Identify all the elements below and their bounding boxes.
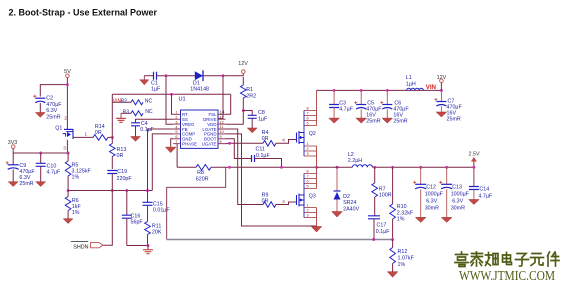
ground C12 — [415, 217, 426, 222]
junction 12V right — [440, 89, 443, 92]
junction 5V/C2 — [66, 83, 69, 86]
resistor R1 — [241, 77, 257, 111]
junction bottom/gnd — [147, 244, 150, 247]
svg-text:5: 5 — [307, 122, 309, 126]
capacitor C9 — [6, 153, 36, 187]
junction C10 tap — [39, 152, 42, 155]
capacitor C10 — [36, 153, 61, 182]
capacitor C8 — [243, 110, 268, 128]
svg-text:1%: 1% — [72, 174, 80, 180]
svg-text:4.7µF: 4.7µF — [47, 169, 62, 175]
svg-text:C4: C4 — [141, 121, 148, 127]
svg-text:C14: C14 — [479, 186, 489, 192]
svg-text:0.01µF: 0.01µF — [153, 208, 170, 214]
wire Q1 gate to R14 — [73, 132, 93, 138]
junction C17 bottom — [372, 238, 375, 241]
wire sense loop — [167, 167, 226, 239]
svg-text:WWW.JTMIC.COM: WWW.JTMIC.COM — [459, 268, 555, 283]
svg-text:4.7µF: 4.7µF — [478, 193, 493, 199]
svg-text:470µF: 470µF — [46, 102, 62, 108]
resistor R8 — [196, 165, 211, 183]
capacitor C19 — [107, 169, 132, 190]
ground Q3 — [311, 227, 322, 233]
junction D2 — [336, 166, 339, 169]
svg-text:4: 4 — [282, 138, 285, 143]
ground U1 GND pin — [165, 147, 176, 153]
wire R14 to node — [108, 136, 112, 138]
svg-text:R7: R7 — [379, 186, 386, 192]
transistor Q2 — [297, 107, 317, 157]
transistor Q1 — [55, 116, 73, 151]
wire C11 to phase — [255, 159, 282, 168]
svg-text:SR24: SR24 — [343, 200, 356, 206]
diode D1 — [190, 70, 209, 92]
svg-text:25mR: 25mR — [447, 117, 461, 123]
ground C9 — [8, 182, 18, 187]
svg-text:220pF: 220pF — [117, 176, 133, 182]
svg-text:2: 2 — [307, 147, 309, 151]
svg-text:C11: C11 — [256, 146, 265, 152]
capacitor C5 — [354, 90, 382, 124]
svg-text:25mR: 25mR — [366, 119, 380, 125]
svg-text:25mR: 25mR — [46, 114, 60, 120]
svg-text:R1: R1 — [246, 87, 253, 93]
resistor R7 — [372, 167, 392, 216]
wire R13 top — [111, 137, 113, 143]
junction R10 — [391, 166, 394, 169]
wire RT net vertical — [111, 94, 113, 137]
wire RT pin drop — [172, 94, 174, 114]
svg-text:R8: R8 — [197, 170, 204, 176]
junction rail C5 — [360, 89, 363, 92]
svg-text:6: 6 — [307, 117, 309, 121]
resistor R2 — [112, 98, 152, 105]
resistor R6 — [65, 191, 81, 219]
junction drive tap — [222, 74, 225, 77]
ground C2 — [35, 113, 45, 118]
svg-text:14: 14 — [220, 110, 226, 115]
svg-text:12V: 12V — [238, 61, 248, 67]
junction FB/C16 — [125, 189, 128, 192]
junction C13 — [445, 166, 448, 169]
svg-text:3: 3 — [307, 152, 309, 156]
wire PHASE drop — [176, 144, 178, 168]
ground C6 — [382, 118, 393, 123]
ground C3 — [329, 118, 340, 123]
ground C5 — [356, 118, 367, 123]
svg-text:4: 4 — [175, 125, 177, 129]
svg-text:1µF: 1µF — [151, 87, 161, 93]
svg-text:100R: 100R — [379, 193, 392, 199]
resistor R13 — [110, 144, 127, 170]
svg-text:0R: 0R — [262, 198, 269, 204]
svg-text:6.3V: 6.3V — [46, 108, 57, 114]
resistor R5 — [65, 153, 91, 191]
svg-text:12: 12 — [220, 120, 224, 124]
capacitor C15 — [143, 191, 171, 222]
svg-text:1N4148: 1N4148 — [190, 86, 209, 92]
svg-text:C17: C17 — [377, 223, 387, 229]
svg-text:3V3: 3V3 — [8, 140, 18, 146]
capacitor C1 — [144, 72, 161, 93]
diode D2 — [334, 191, 360, 213]
capacitor C3 — [329, 90, 354, 118]
svg-text:1%: 1% — [397, 217, 405, 223]
svg-text:3: 3 — [307, 214, 309, 218]
capacitor C14 — [469, 167, 493, 199]
junction UGATE/sense — [228, 142, 231, 145]
wire VREG drop — [166, 76, 173, 125]
svg-text:8: 8 — [307, 170, 309, 174]
wire C1 to D1 — [157, 75, 197, 77]
wire output rail right — [372, 166, 474, 168]
wire COMP pin drop — [152, 134, 173, 191]
ground C4 — [131, 137, 141, 142]
svg-text:6: 6 — [307, 180, 309, 184]
wire BOOT drop — [226, 139, 252, 159]
power port 3V3 — [8, 140, 18, 148]
svg-text:2. Boot-Strap - Use External P: 2. Boot-Strap - Use External Power — [9, 8, 158, 18]
svg-text:4.7µF: 4.7µF — [339, 107, 354, 113]
op-amp U1 controller IC — [173, 97, 225, 149]
svg-text:2.2µH: 2.2µH — [348, 158, 363, 164]
svg-text:30mR: 30mR — [425, 205, 439, 211]
wire R4 to Q2 gate — [276, 138, 297, 144]
junction phase/R8 sense — [228, 166, 231, 169]
junction rail C6 — [386, 89, 389, 92]
svg-text:1: 1 — [307, 204, 309, 208]
svg-text:R3: R3 — [123, 109, 130, 115]
svg-text:D2: D2 — [343, 194, 350, 200]
wire D1 to 12V — [204, 74, 244, 76]
svg-text:C8: C8 — [258, 110, 265, 116]
junction 3V3/Q1 — [67, 152, 70, 155]
capacitor C7 — [434, 90, 462, 122]
ground R6 — [63, 219, 73, 224]
wire phase rail mid — [211, 166, 317, 168]
resistor R3 — [121, 109, 153, 116]
svg-text:7: 7 — [307, 112, 309, 116]
svg-text:6: 6 — [175, 135, 177, 139]
svg-text:0R: 0R — [117, 153, 124, 159]
svg-text:3: 3 — [175, 120, 177, 124]
svg-text:VIN: VIN — [426, 84, 437, 91]
junction C11/phase — [280, 166, 283, 169]
svg-text:R10: R10 — [397, 204, 407, 210]
wire 5V vertical — [66, 78, 68, 130]
svg-text:Q3: Q3 — [309, 194, 316, 200]
junction R5/R6 FB node — [67, 189, 70, 192]
ground C14 — [469, 200, 480, 205]
ground C10 — [36, 182, 46, 187]
svg-text:Q2: Q2 — [309, 131, 316, 137]
inductor L1 — [406, 75, 424, 90]
wire RT line — [112, 93, 230, 95]
svg-text:25mR: 25mR — [393, 119, 407, 125]
svg-text:6.3V: 6.3V — [452, 198, 463, 204]
svg-text:13: 13 — [220, 115, 224, 119]
wire Q1 source down — [66, 140, 68, 153]
svg-text:2: 2 — [307, 209, 309, 213]
ground D2 — [332, 212, 343, 218]
svg-text:2R2: 2R2 — [246, 93, 256, 99]
svg-text:620R: 620R — [196, 176, 209, 182]
svg-text:5V: 5V — [64, 69, 71, 75]
resistor R4 — [262, 130, 276, 146]
inductor L2 — [348, 152, 373, 167]
watermark chinese — [455, 252, 559, 267]
svg-text:L1: L1 — [406, 75, 412, 81]
wire VDD drop — [226, 111, 244, 125]
capacitor C13 — [439, 167, 469, 217]
svg-text:2.5V: 2.5V — [468, 152, 479, 158]
svg-text:Q1: Q1 — [55, 126, 62, 132]
svg-text:SHDN: SHDN — [73, 244, 88, 250]
svg-text:2: 2 — [175, 116, 177, 120]
capacitor C16 — [122, 191, 144, 246]
svg-text:C13: C13 — [452, 184, 462, 190]
junction VREG — [165, 74, 168, 77]
resistor R12 — [390, 240, 415, 272]
wire GND pin — [171, 139, 174, 147]
svg-text:5: 5 — [307, 185, 309, 189]
svg-text:2A40V: 2A40V — [343, 207, 359, 213]
wire FSL drop — [226, 94, 231, 114]
svg-text:3: 3 — [63, 145, 66, 150]
svg-text:1: 1 — [85, 132, 88, 137]
junction R1/C8 — [242, 109, 245, 112]
svg-text:8: 8 — [220, 140, 222, 144]
wire comp bottom — [127, 245, 149, 247]
junction FB/C15 — [146, 189, 149, 192]
wire PGND drop — [226, 134, 317, 226]
svg-text:6.3V: 6.3V — [426, 198, 437, 204]
junction C12 — [419, 166, 422, 169]
junction 2.5V — [472, 166, 475, 169]
wire 3V3 rail — [13, 148, 68, 153]
junction R14/R13 — [111, 136, 114, 139]
ground C8 — [247, 128, 257, 133]
svg-text:0.1µF: 0.1µF — [376, 229, 391, 235]
junction R10/R12/sense — [391, 238, 394, 241]
svg-text:8: 8 — [307, 107, 309, 111]
wire DRIVE drop — [218, 76, 223, 119]
junction RT — [170, 93, 173, 96]
svg-text:NC: NC — [145, 98, 153, 104]
resistor R10 — [390, 167, 414, 239]
wire Q3 drain bus — [316, 167, 318, 188]
junction R7 — [373, 166, 376, 169]
svg-text:10: 10 — [220, 130, 224, 134]
svg-text:0R: 0R — [95, 130, 102, 136]
svg-text:1%: 1% — [398, 262, 406, 268]
junction rail C3 — [333, 89, 336, 92]
capacitor C12 — [413, 167, 443, 217]
svg-text:1µF: 1µF — [258, 116, 268, 122]
svg-text:C12: C12 — [426, 184, 436, 190]
svg-text:C19: C19 — [117, 169, 127, 175]
svg-text:R2: R2 — [121, 99, 128, 105]
wire R9 to Q3 gate — [276, 199, 297, 205]
svg-text:9: 9 — [220, 135, 222, 139]
wire Q3 source bus — [316, 208, 318, 227]
title text — [9, 8, 158, 18]
wire FB line — [68, 190, 152, 192]
resistor R14 — [93, 124, 108, 140]
svg-text:0R: 0R — [262, 136, 269, 142]
power port 12V left — [238, 61, 248, 73]
ground C7 — [436, 112, 447, 117]
svg-text:1: 1 — [175, 111, 177, 115]
junction FB/SHDN drop — [111, 189, 114, 192]
wire UGATE line — [226, 142, 264, 144]
power port 5V — [64, 69, 71, 77]
svg-text:L2: L2 — [348, 152, 354, 158]
ground R12 — [387, 272, 398, 278]
wire D2 stem top — [336, 167, 338, 191]
svg-text:11: 11 — [220, 125, 224, 129]
capacitor C6 — [380, 90, 409, 124]
resistor R11 — [145, 222, 162, 246]
svg-text:12V: 12V — [437, 75, 447, 81]
svg-text:NC: NC — [145, 109, 153, 115]
svg-text:1%: 1% — [72, 210, 80, 216]
ground R3 — [116, 113, 126, 122]
ground C1 — [140, 76, 149, 85]
wire SS line — [136, 119, 174, 123]
svg-text:PHASE: PHASE — [182, 142, 197, 147]
capacitor C4 — [131, 121, 155, 137]
svg-text:20K: 20K — [152, 229, 162, 235]
svg-text:1µH: 1µH — [406, 82, 416, 88]
wire Q2 source bus — [316, 146, 318, 167]
junction phase node — [315, 166, 318, 169]
wire LGATE drop — [226, 129, 264, 205]
svg-text:U1: U1 — [179, 97, 186, 103]
wire to C2 — [40, 85, 67, 97]
svg-text:25mR: 25mR — [19, 181, 33, 187]
svg-text:5: 5 — [175, 130, 177, 134]
ground comp network — [143, 246, 153, 254]
watermark url — [459, 268, 555, 283]
ground C13 — [441, 217, 452, 222]
transistor Q3 — [297, 170, 317, 218]
wire phase rail left — [177, 166, 196, 168]
port SHDN — [71, 242, 103, 251]
svg-text:R12: R12 — [398, 249, 408, 255]
wire input rail — [317, 89, 442, 91]
svg-text:2: 2 — [64, 116, 67, 121]
capacitor C11 — [252, 146, 271, 162]
resistor R9 — [262, 192, 276, 207]
net label VIN left — [113, 98, 122, 104]
svg-text:1000µF: 1000µF — [451, 191, 470, 197]
power port 12V right — [437, 75, 447, 91]
wire FB pin drop — [148, 129, 174, 191]
wire output rail — [317, 166, 353, 168]
power port 2.5V — [468, 152, 479, 168]
svg-text:4: 4 — [282, 199, 285, 204]
capacitor C2 — [33, 95, 62, 121]
svg-text:C2: C2 — [46, 96, 53, 102]
svg-text:1.07kF: 1.07kF — [398, 256, 415, 262]
svg-text:1: 1 — [307, 142, 309, 146]
svg-text:UGATE: UGATE — [202, 142, 217, 147]
svg-text:30mR: 30mR — [451, 205, 465, 211]
wire sense loop grey — [167, 239, 393, 241]
wire SHDN drop — [103, 191, 112, 246]
svg-text:7: 7 — [175, 140, 177, 144]
net label VIN right — [426, 84, 437, 91]
wire Q2 drain bus — [316, 90, 318, 125]
svg-text:1000µF: 1000µF — [425, 191, 444, 197]
svg-text:7: 7 — [307, 175, 309, 179]
capacitor C17 — [368, 216, 390, 240]
svg-text:56pF: 56pF — [131, 219, 144, 225]
svg-text:2.32kF: 2.32kF — [397, 210, 414, 216]
